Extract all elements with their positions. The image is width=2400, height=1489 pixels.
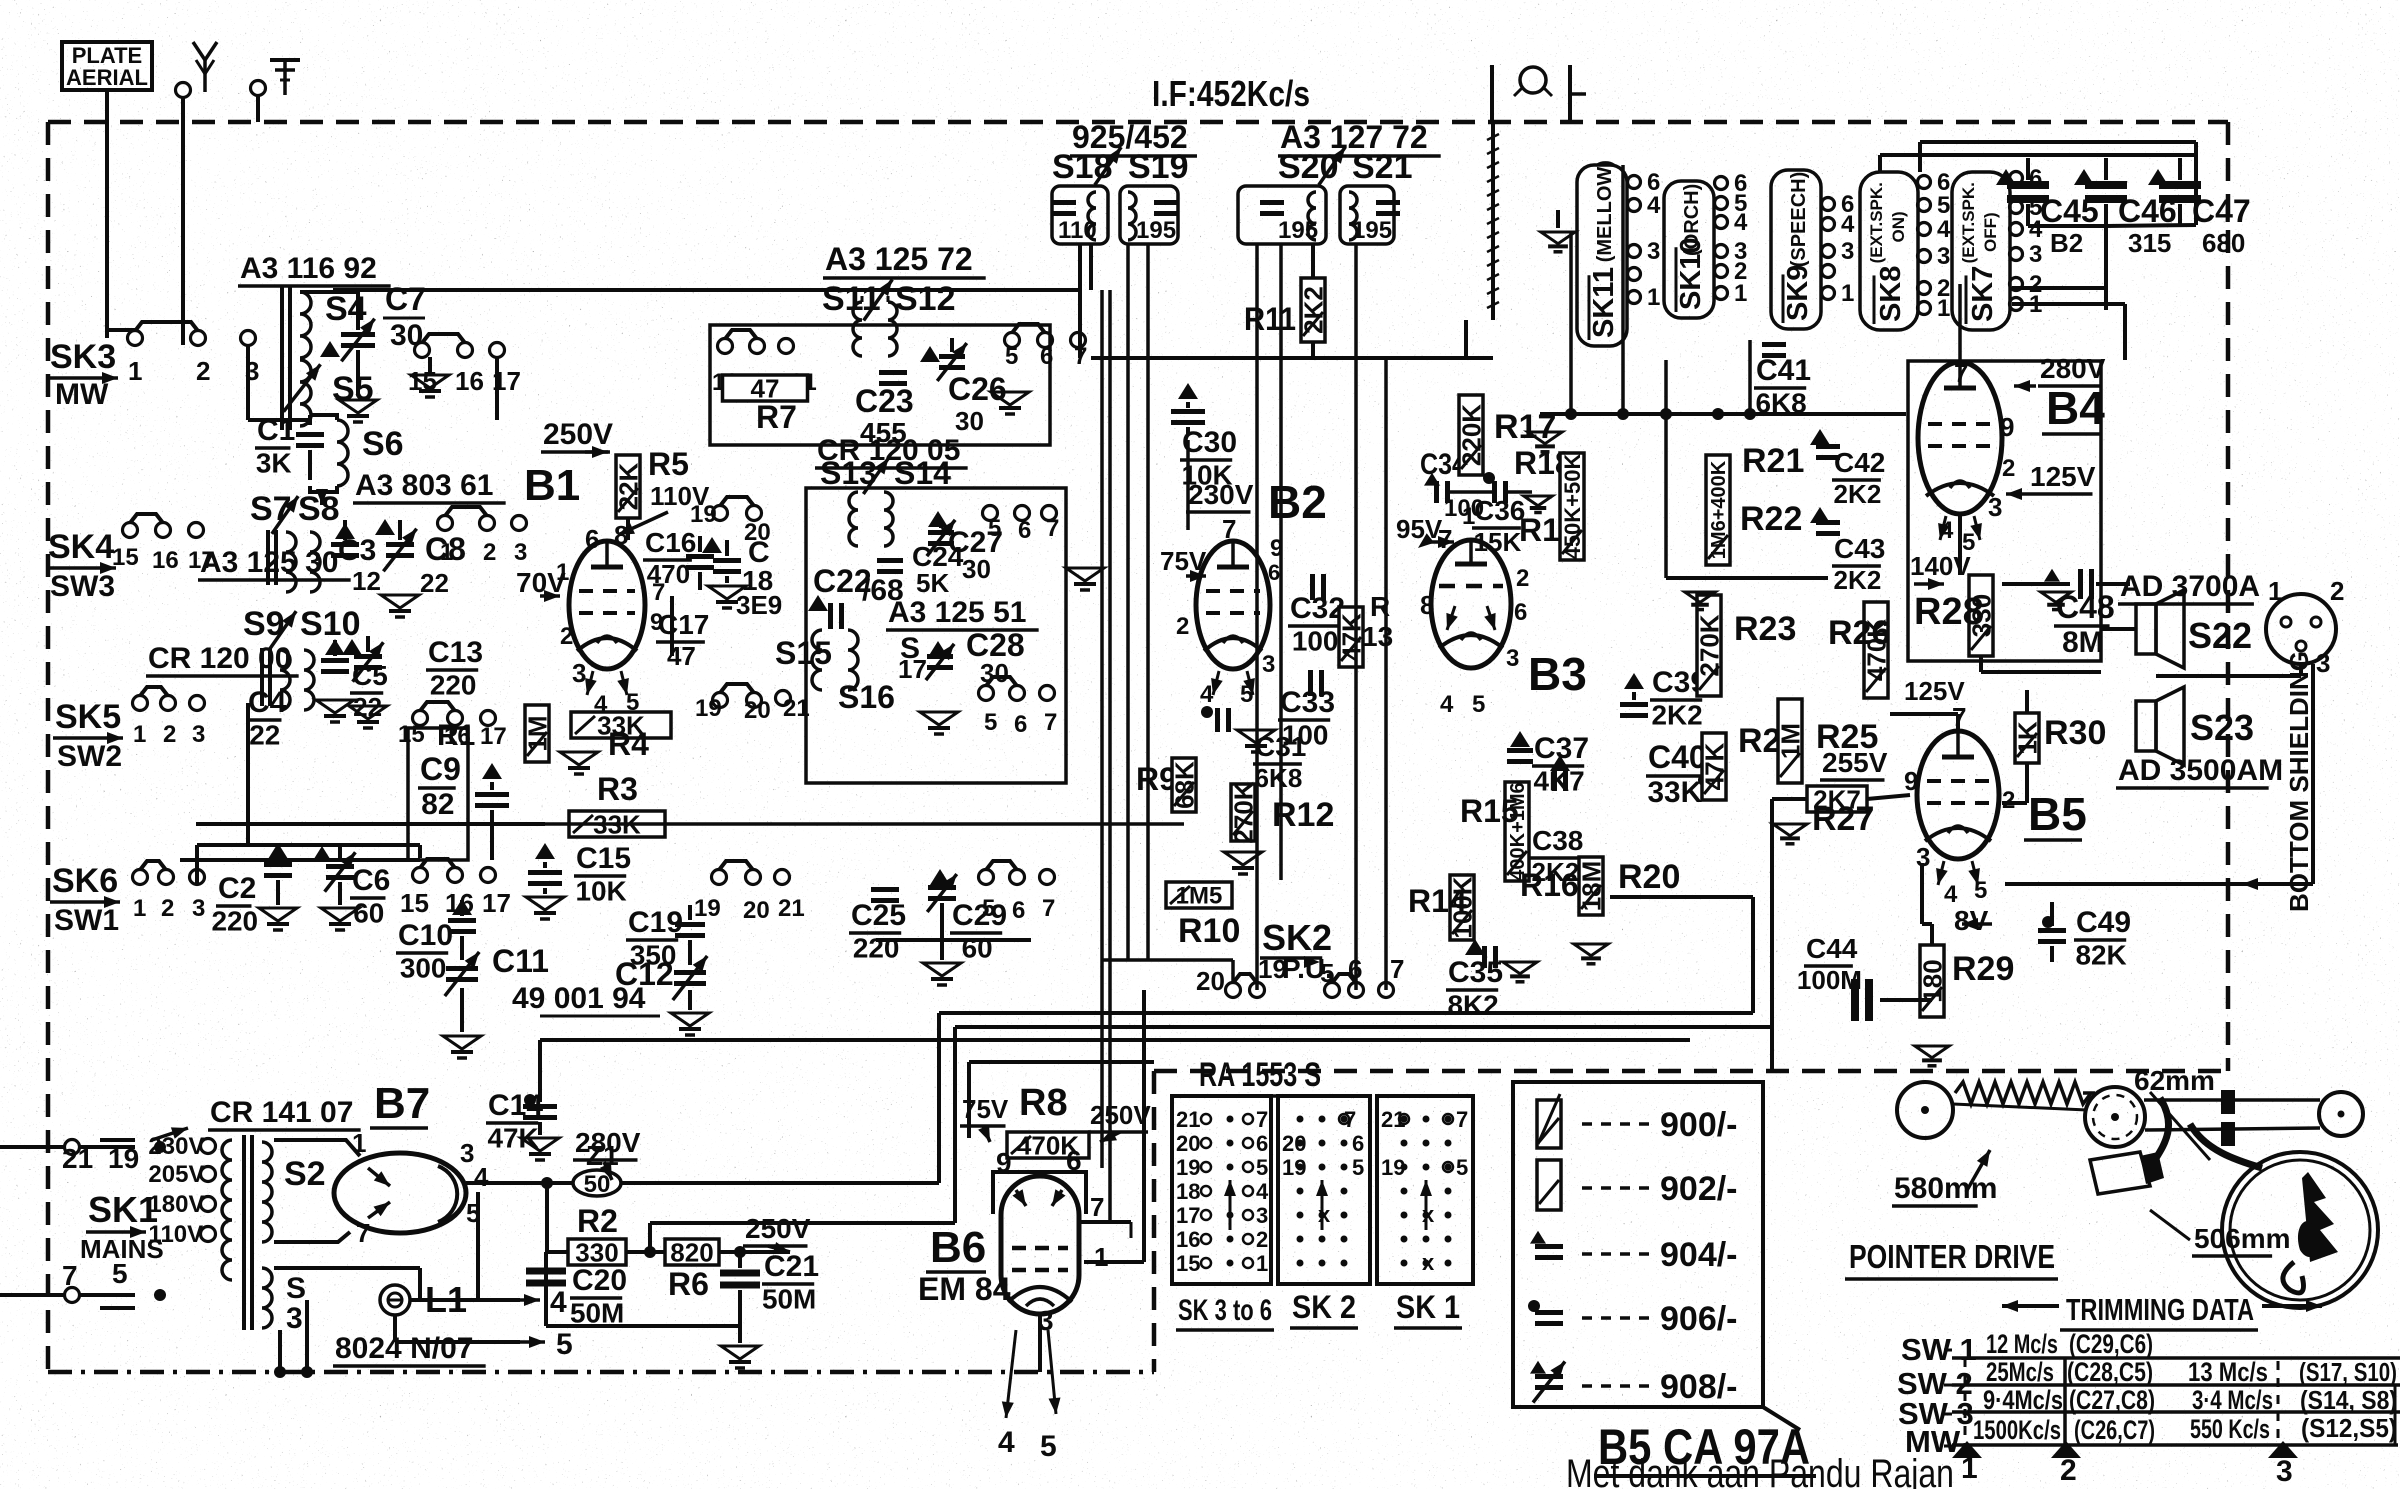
svg-text:9: 9 xyxy=(2000,412,2014,442)
svg-text:2K2: 2K2 xyxy=(1298,286,1328,334)
svg-text:680: 680 xyxy=(2202,228,2245,258)
svg-text:S14: S14 xyxy=(894,455,951,491)
svg-text:8M: 8M xyxy=(2062,626,2103,659)
svg-text:SK6: SK6 xyxy=(52,862,118,900)
svg-text:8024 N/07: 8024 N/07 xyxy=(335,1332,473,1365)
svg-text:13: 13 xyxy=(1362,621,1393,652)
svg-text:2: 2 xyxy=(196,356,210,386)
svg-text:3: 3 xyxy=(1256,1203,1268,1228)
svg-text:19: 19 xyxy=(1258,954,1287,984)
svg-text:3: 3 xyxy=(1647,238,1660,265)
svg-text:C20: C20 xyxy=(572,1264,627,1297)
svg-text:6: 6 xyxy=(1014,711,1027,738)
svg-text:19: 19 xyxy=(690,501,717,528)
svg-text:220: 220 xyxy=(211,906,258,937)
svg-text:21: 21 xyxy=(1176,1107,1200,1132)
svg-text:C5: C5 xyxy=(352,660,388,691)
svg-text:4: 4 xyxy=(550,1286,567,1319)
svg-text:x: x xyxy=(1422,1202,1435,1227)
svg-text:908/-: 908/- xyxy=(1660,1368,1738,1406)
svg-text:20: 20 xyxy=(744,697,771,724)
svg-text:2: 2 xyxy=(163,721,176,748)
svg-text:9: 9 xyxy=(1904,766,1918,796)
svg-text:95V: 95V xyxy=(1396,514,1443,544)
svg-text:R20: R20 xyxy=(1618,858,1680,896)
svg-text:3K: 3K xyxy=(256,448,292,479)
svg-text:82: 82 xyxy=(421,788,454,821)
svg-text:20: 20 xyxy=(1176,1131,1200,1156)
svg-text:B6: B6 xyxy=(930,1223,986,1272)
svg-text:62mm: 62mm xyxy=(2134,1065,2215,1096)
svg-text:2K2: 2K2 xyxy=(1834,565,1882,595)
svg-text:3: 3 xyxy=(192,721,205,748)
svg-text:C2: C2 xyxy=(218,872,256,905)
svg-text:3: 3 xyxy=(1262,651,1275,678)
svg-text:R27: R27 xyxy=(1812,800,1874,838)
svg-text:1: 1 xyxy=(133,721,146,748)
svg-text:2: 2 xyxy=(2002,455,2015,482)
svg-text:3: 3 xyxy=(2029,241,2042,268)
svg-text:POINTER DRIVE: POINTER DRIVE xyxy=(1849,1238,2055,1275)
svg-text:SK 3 to 6: SK 3 to 6 xyxy=(1178,1294,1272,1327)
svg-text:5: 5 xyxy=(1974,877,1987,904)
svg-text:550 Kc/s: 550 Kc/s xyxy=(2190,1414,2270,1444)
svg-text:C38: C38 xyxy=(1532,825,1583,856)
svg-text:15: 15 xyxy=(400,888,429,918)
svg-text:C19: C19 xyxy=(628,906,683,939)
svg-text:SK7: SK7 xyxy=(1967,266,1999,322)
svg-text:C44: C44 xyxy=(1806,933,1858,964)
svg-text:220: 220 xyxy=(430,670,477,701)
svg-text:3E9: 3E9 xyxy=(736,590,782,620)
svg-text:6: 6 xyxy=(1256,1131,1268,1156)
svg-text:195: 195 xyxy=(1352,217,1392,244)
svg-text:SK2: SK2 xyxy=(1262,917,1332,958)
svg-text:506mm: 506mm xyxy=(2194,1223,2291,1254)
svg-text:SK11: SK11 xyxy=(1588,267,1620,338)
svg-text:S15: S15 xyxy=(775,635,832,671)
svg-text:5: 5 xyxy=(1352,1155,1364,1180)
svg-text:7: 7 xyxy=(1438,524,1452,554)
svg-text:Met dank aan Pandu Rajan: Met dank aan Pandu Rajan xyxy=(1566,1452,1954,1489)
svg-text:C17: C17 xyxy=(658,609,709,640)
svg-text:1: 1 xyxy=(1647,284,1660,311)
svg-text:7: 7 xyxy=(1046,515,1059,542)
svg-text:15K: 15K xyxy=(1474,527,1522,557)
svg-text:R2: R2 xyxy=(577,1203,618,1239)
svg-text:A3 116 92: A3 116 92 xyxy=(240,252,377,285)
svg-text:4: 4 xyxy=(1940,517,1954,544)
svg-text:R21: R21 xyxy=(1742,442,1804,480)
svg-text:R15: R15 xyxy=(1460,793,1519,829)
svg-text:(S14, S8): (S14, S8) xyxy=(2300,1385,2397,1415)
svg-text:R23: R23 xyxy=(1734,610,1796,648)
svg-text:C43: C43 xyxy=(1834,533,1885,564)
svg-text:315: 315 xyxy=(2128,228,2171,258)
svg-text:18M: 18M xyxy=(1576,861,1606,912)
svg-text:C11: C11 xyxy=(492,943,549,979)
svg-text:6K8: 6K8 xyxy=(1255,763,1303,793)
svg-text:6K8: 6K8 xyxy=(1756,388,1807,419)
svg-text:C12: C12 xyxy=(615,956,674,992)
svg-text:3: 3 xyxy=(1506,645,1519,672)
svg-text:2: 2 xyxy=(2060,1454,2077,1487)
svg-text:17: 17 xyxy=(480,723,507,750)
svg-text:2K2: 2K2 xyxy=(1652,700,1703,731)
svg-text:1M5: 1M5 xyxy=(1176,883,1223,910)
svg-text:5: 5 xyxy=(988,515,1001,542)
svg-text:R3: R3 xyxy=(597,771,638,807)
svg-text:B7: B7 xyxy=(374,1079,430,1128)
svg-text:220: 220 xyxy=(853,933,900,964)
svg-text:20: 20 xyxy=(743,897,770,924)
svg-text:SK3: SK3 xyxy=(50,338,116,376)
svg-text:C33: C33 xyxy=(1280,686,1335,719)
svg-text:R29: R29 xyxy=(1952,950,2014,988)
svg-text:33K: 33K xyxy=(1647,776,1702,809)
svg-text:B4: B4 xyxy=(2046,382,2105,434)
svg-text:5: 5 xyxy=(984,709,997,736)
svg-text:100: 100 xyxy=(1292,626,1339,657)
svg-text:17: 17 xyxy=(482,888,511,918)
svg-text:S18: S18 xyxy=(1052,148,1113,186)
svg-text:C49: C49 xyxy=(2076,906,2131,939)
svg-text:19: 19 xyxy=(694,895,721,922)
svg-text:16: 16 xyxy=(455,366,484,396)
svg-text:B3: B3 xyxy=(1528,648,1587,700)
svg-text:S19: S19 xyxy=(1128,148,1189,186)
svg-text:22K: 22K xyxy=(613,462,643,510)
svg-text:270K: 270K xyxy=(1694,614,1724,676)
svg-text:580mm: 580mm xyxy=(1894,1172,1997,1205)
svg-text:30: 30 xyxy=(980,658,1009,688)
svg-text:(C29,C6): (C29,C6) xyxy=(2069,1329,2153,1359)
svg-text:1: 1 xyxy=(133,895,146,922)
svg-text:8V: 8V xyxy=(1954,905,1989,936)
svg-text:5: 5 xyxy=(1472,691,1485,718)
svg-text:4: 4 xyxy=(1937,216,1951,243)
svg-text:SK5: SK5 xyxy=(55,698,121,736)
svg-text:C47: C47 xyxy=(2192,193,2251,229)
svg-text:RA 1553 S: RA 1553 S xyxy=(1199,1056,1321,1094)
svg-text:19: 19 xyxy=(695,695,722,722)
svg-text:C3: C3 xyxy=(338,534,376,567)
svg-text:10K: 10K xyxy=(576,876,627,907)
svg-text:1K: 1K xyxy=(2012,721,2042,754)
svg-text:(C28,C5): (C28,C5) xyxy=(2067,1357,2153,1387)
svg-text:1M: 1M xyxy=(1775,723,1805,759)
svg-text:C15: C15 xyxy=(576,842,631,875)
svg-text:3: 3 xyxy=(1988,492,2002,522)
svg-text:18: 18 xyxy=(1176,1179,1200,1204)
svg-text:3: 3 xyxy=(572,658,586,688)
svg-text:CR 141 07: CR 141 07 xyxy=(210,1096,353,1129)
svg-text:(ORCH): (ORCH) xyxy=(1681,184,1703,256)
svg-text:EM 84: EM 84 xyxy=(918,1271,1011,1307)
svg-text:7: 7 xyxy=(356,1218,370,1248)
svg-text:5: 5 xyxy=(1320,958,1334,988)
svg-text:B2: B2 xyxy=(1268,476,1327,528)
svg-text:250V: 250V xyxy=(543,418,613,451)
svg-text:906/-: 906/- xyxy=(1660,1300,1738,1338)
svg-text:15: 15 xyxy=(398,721,425,748)
svg-text:4: 4 xyxy=(998,1426,1015,1459)
svg-text:1: 1 xyxy=(1937,295,1950,322)
svg-text:30: 30 xyxy=(962,554,991,584)
svg-text:1: 1 xyxy=(440,539,453,566)
svg-text:3: 3 xyxy=(286,1302,303,1335)
svg-text:(EXT.SPK.: (EXT.SPK. xyxy=(1959,182,1978,263)
svg-text:75V: 75V xyxy=(1160,546,1207,576)
svg-text:3: 3 xyxy=(2276,1455,2293,1488)
svg-text:R28: R28 xyxy=(1914,591,1984,633)
svg-text:4: 4 xyxy=(1256,1179,1269,1204)
svg-text:75V: 75V xyxy=(962,1094,1009,1124)
svg-text:16: 16 xyxy=(152,547,179,574)
svg-text:3: 3 xyxy=(2316,648,2330,678)
svg-text:16: 16 xyxy=(1176,1227,1200,1252)
svg-text:C6: C6 xyxy=(352,864,390,897)
svg-text:SK8: SK8 xyxy=(1875,266,1907,322)
svg-text:3: 3 xyxy=(1841,238,1854,265)
svg-text:5: 5 xyxy=(1240,681,1253,708)
svg-text:125V: 125V xyxy=(2030,461,2096,492)
svg-text:1M: 1M xyxy=(522,715,552,751)
svg-text:60: 60 xyxy=(353,898,384,929)
svg-text:50M: 50M xyxy=(762,1284,816,1315)
svg-text:C40: C40 xyxy=(1648,739,1707,775)
svg-text:6: 6 xyxy=(1514,599,1527,626)
svg-text:OFF): OFF) xyxy=(1981,212,2000,252)
svg-text:A3 125 72: A3 125 72 xyxy=(825,241,973,277)
svg-text:25Mc/s: 25Mc/s xyxy=(1986,1357,2054,1387)
svg-text:4: 4 xyxy=(1200,681,1214,708)
svg-text:B1: B1 xyxy=(524,461,580,510)
svg-text:20: 20 xyxy=(1196,966,1225,996)
svg-text:S11: S11 xyxy=(822,280,881,318)
svg-text:SW2: SW2 xyxy=(57,740,122,773)
svg-text:205V: 205V xyxy=(148,1161,204,1188)
svg-text:820: 820 xyxy=(670,1237,713,1267)
svg-text:250V: 250V xyxy=(745,1213,811,1244)
svg-text:1: 1 xyxy=(128,356,142,386)
svg-text:C30: C30 xyxy=(1182,426,1237,459)
svg-text:470: 470 xyxy=(647,559,690,589)
svg-text:1: 1 xyxy=(1094,1242,1108,1272)
svg-text:5: 5 xyxy=(1456,1155,1468,1180)
svg-text:2: 2 xyxy=(1516,565,1529,592)
svg-text:6: 6 xyxy=(1040,343,1053,370)
svg-text:R26: R26 xyxy=(1828,614,1890,652)
svg-text:S22: S22 xyxy=(2188,615,2252,656)
svg-text:S5: S5 xyxy=(332,370,374,408)
svg-text:S8: S8 xyxy=(298,490,340,528)
svg-text:5: 5 xyxy=(1256,1155,1268,1180)
svg-text:SW3: SW3 xyxy=(50,570,115,603)
svg-text:A3 803 61: A3 803 61 xyxy=(355,469,493,502)
svg-text:R16: R16 xyxy=(1520,867,1579,903)
svg-text:C26: C26 xyxy=(948,371,1007,407)
svg-text:(S17, S10): (S17, S10) xyxy=(2299,1357,2397,1387)
svg-text:C23: C23 xyxy=(855,383,914,419)
svg-text:1M6+400K: 1M6+400K xyxy=(1708,460,1730,559)
svg-text:4: 4 xyxy=(1440,691,1454,718)
svg-text:R14: R14 xyxy=(1408,883,1467,919)
svg-text:S7: S7 xyxy=(250,490,292,528)
svg-text:3: 3 xyxy=(1937,243,1950,270)
svg-text:9·4Mc/s: 9·4Mc/s xyxy=(1983,1385,2063,1415)
svg-text:R6: R6 xyxy=(668,1266,709,1302)
svg-text:A3 125 30: A3 125 30 xyxy=(200,546,338,579)
svg-text:7: 7 xyxy=(1042,895,1055,922)
svg-text:x: x xyxy=(1318,1202,1331,1227)
svg-text:7: 7 xyxy=(1954,358,1968,388)
svg-text:180V: 180V xyxy=(148,1191,204,1218)
svg-text:12 Mc/s: 12 Mc/s xyxy=(1986,1329,2058,1359)
svg-text:6: 6 xyxy=(1066,1145,1082,1176)
svg-text:1500Kc/s: 1500Kc/s xyxy=(1973,1415,2061,1445)
svg-text:I.F:452Kc/s: I.F:452Kc/s xyxy=(1152,73,1310,114)
svg-text:C4: C4 xyxy=(248,686,287,719)
svg-text:270K: 270K xyxy=(1228,781,1258,843)
svg-text:7: 7 xyxy=(1456,1107,1468,1132)
svg-text:(C26,C7): (C26,C7) xyxy=(2074,1415,2155,1445)
svg-text:4: 4 xyxy=(1944,881,1958,908)
svg-text:S10: S10 xyxy=(300,605,361,643)
svg-text:2: 2 xyxy=(483,539,496,566)
svg-text:2: 2 xyxy=(1176,613,1189,640)
svg-text:(S12,S5): (S12,S5) xyxy=(2301,1413,2397,1443)
svg-text:B5: B5 xyxy=(2028,788,2087,840)
svg-text:22: 22 xyxy=(249,720,280,751)
svg-text:4: 4 xyxy=(474,1162,489,1192)
svg-text:SK9: SK9 xyxy=(1782,265,1814,321)
svg-text:17: 17 xyxy=(1176,1203,1200,1228)
svg-text:7: 7 xyxy=(1044,709,1057,736)
svg-text:A3 125 51: A3 125 51 xyxy=(888,596,1026,629)
svg-text:8: 8 xyxy=(1420,590,1434,620)
svg-text:5: 5 xyxy=(1005,343,1018,370)
svg-text:5: 5 xyxy=(1937,192,1950,219)
svg-text:S21: S21 xyxy=(1352,148,1413,186)
svg-text:AD 3500AM: AD 3500AM xyxy=(2118,754,2283,787)
svg-text:R10: R10 xyxy=(1178,912,1240,950)
svg-text:450K+50K: 450K+50K xyxy=(1560,453,1585,559)
svg-text:x: x xyxy=(1422,1250,1435,1275)
svg-text:C48: C48 xyxy=(2056,589,2115,625)
svg-text:Z1: Z1 xyxy=(586,1140,619,1171)
svg-text:R5: R5 xyxy=(648,446,689,482)
svg-text:AERIAL: AERIAL xyxy=(66,65,148,90)
svg-text:300: 300 xyxy=(400,953,447,984)
svg-text:900/-: 900/- xyxy=(1660,1106,1738,1144)
svg-text:30: 30 xyxy=(955,406,984,436)
svg-text:13 Mc/s: 13 Mc/s xyxy=(2188,1357,2268,1387)
svg-text:C25: C25 xyxy=(851,899,906,932)
svg-text:5: 5 xyxy=(556,1328,573,1361)
svg-text:C10: C10 xyxy=(398,919,453,952)
svg-text:15: 15 xyxy=(112,544,139,571)
svg-text:220K: 220K xyxy=(1456,404,1486,466)
svg-text:17: 17 xyxy=(898,654,927,684)
svg-text:280V: 280V xyxy=(2040,353,2106,384)
svg-text:C41: C41 xyxy=(1756,354,1811,387)
svg-text:5: 5 xyxy=(1040,1430,1057,1463)
svg-text:1: 1 xyxy=(1734,280,1747,307)
svg-text:2: 2 xyxy=(161,895,174,922)
svg-text:68K: 68K xyxy=(1169,761,1199,809)
svg-text:195: 195 xyxy=(1136,217,1176,244)
svg-text:6: 6 xyxy=(1018,517,1031,544)
svg-text:C16: C16 xyxy=(645,527,696,558)
svg-text:7: 7 xyxy=(1390,954,1404,984)
svg-text:5: 5 xyxy=(982,895,995,922)
svg-text:2: 2 xyxy=(2002,787,2015,814)
svg-text:C36: C36 xyxy=(1474,495,1525,526)
svg-text:22: 22 xyxy=(420,568,449,598)
svg-text:SK 2: SK 2 xyxy=(1292,1289,1356,1325)
svg-text:82K: 82K xyxy=(2076,940,2127,971)
svg-text:8K2: 8K2 xyxy=(1448,990,1499,1021)
svg-text:1: 1 xyxy=(1961,1452,1978,1485)
svg-text:R22: R22 xyxy=(1740,500,1802,538)
svg-text:▲: ▲ xyxy=(452,799,453,801)
svg-text:5K: 5K xyxy=(916,568,949,598)
svg-text:3: 3 xyxy=(514,539,527,566)
svg-text:3: 3 xyxy=(460,1138,474,1168)
svg-text:C7: C7 xyxy=(385,281,426,317)
svg-text:180: 180 xyxy=(1917,959,1947,1002)
svg-text:4: 4 xyxy=(1841,211,1855,238)
svg-text:R7: R7 xyxy=(756,399,797,435)
svg-text:S4: S4 xyxy=(325,290,367,328)
svg-text:R11: R11 xyxy=(1244,301,1296,337)
svg-text:C35: C35 xyxy=(1448,956,1503,989)
svg-text:30: 30 xyxy=(390,319,423,352)
svg-text:904/-: 904/- xyxy=(1660,1236,1738,1274)
svg-text:S6: S6 xyxy=(362,425,404,463)
svg-text:B2: B2 xyxy=(2050,228,2083,258)
svg-text:60: 60 xyxy=(962,933,993,964)
svg-text:C29: C29 xyxy=(952,899,1007,932)
svg-text:R1: R1 xyxy=(437,719,475,752)
svg-text:12: 12 xyxy=(352,566,381,596)
svg-text:50: 50 xyxy=(584,1171,611,1198)
svg-text:C13: C13 xyxy=(428,636,483,669)
svg-text:7: 7 xyxy=(1090,1192,1104,1222)
svg-text:125V: 125V xyxy=(1904,676,1965,706)
svg-text:9: 9 xyxy=(996,1147,1012,1178)
svg-text:SK4: SK4 xyxy=(48,528,114,566)
svg-text:S2: S2 xyxy=(284,1155,326,1193)
svg-text:C21: C21 xyxy=(764,1250,819,1283)
svg-text:140V: 140V xyxy=(1910,551,1971,581)
svg-text:C9: C9 xyxy=(420,751,461,787)
svg-text:20: 20 xyxy=(744,519,771,546)
svg-text:2: 2 xyxy=(1256,1227,1268,1252)
svg-text:TRIMMING DATA: TRIMMING DATA xyxy=(2066,1292,2254,1327)
svg-text:2: 2 xyxy=(560,623,573,650)
svg-text:SW1: SW1 xyxy=(54,904,119,937)
svg-text:6: 6 xyxy=(1352,1131,1364,1156)
svg-text:AD 3700A: AD 3700A xyxy=(2120,570,2260,603)
svg-text:MW: MW xyxy=(55,378,109,411)
svg-text:S23: S23 xyxy=(2190,707,2254,748)
svg-text:R4: R4 xyxy=(608,726,649,762)
svg-text:(C27,C8): (C27,C8) xyxy=(2069,1385,2155,1415)
svg-text:S: S xyxy=(286,1272,306,1305)
svg-text:6: 6 xyxy=(1268,560,1280,585)
